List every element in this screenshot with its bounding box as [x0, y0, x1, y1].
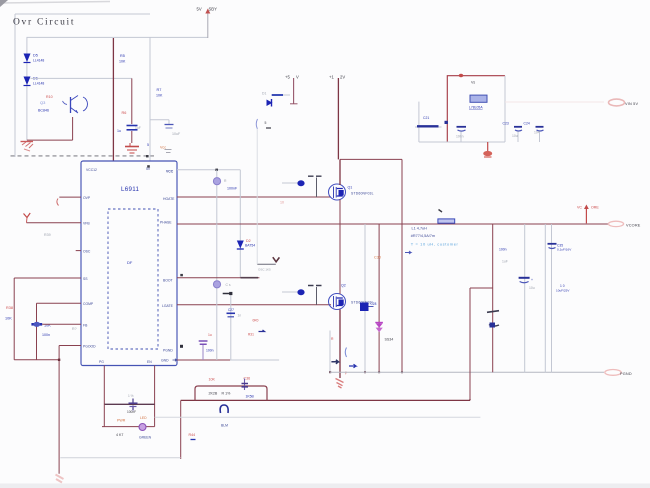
wire LED box bottom	[102, 404, 155, 426]
svg-text:R31: R31	[248, 333, 254, 337]
wire to VIN connector	[505, 101, 604, 103]
wire IC pin SS	[14, 277, 81, 279]
svg-text:C s: C s	[226, 283, 231, 287]
resistor R5 line	[112, 38, 114, 161]
junction dot	[215, 169, 218, 171]
wire faint y458	[60, 457, 180, 459]
svg-text:D2: D2	[246, 239, 251, 243]
small mark	[405, 251, 411, 254]
svg-text:GND: GND	[161, 359, 169, 363]
svg-text:C21: C21	[423, 116, 429, 120]
wire LGATE	[177, 304, 331, 306]
svg-text:D5: D5	[33, 54, 38, 58]
capacitor C31	[199, 333, 214, 360]
wire BOOT pin	[177, 277, 259, 279]
wire IC pin PGOOD	[59, 345, 81, 347]
svg-text:Vs: Vs	[471, 81, 475, 85]
svg-text:100nF: 100nF	[227, 187, 238, 191]
svg-text:PGND: PGND	[163, 349, 173, 353]
svg-text:R 1%: R 1%	[222, 392, 232, 396]
wire D2 branch	[239, 170, 241, 278]
svg-text:5: 5	[265, 121, 267, 125]
svg-text:4 K7: 4 K7	[116, 433, 123, 437]
svg-text:SS34: SS34	[385, 338, 394, 342]
svg-text:C28: C28	[371, 302, 377, 306]
svg-text:10K: 10K	[119, 60, 126, 64]
mosfet Q2	[329, 284, 374, 310]
cap legs	[461, 132, 540, 143]
svg-text:PHASE: PHASE	[160, 221, 172, 225]
junction dot	[445, 121, 448, 124]
capacitor C32	[127, 394, 138, 414]
resistor R40	[31, 322, 51, 337]
svg-text:HGATE: HGATE	[163, 197, 175, 201]
wire branch y78	[31, 77, 132, 79]
svg-text:10K: 10K	[5, 317, 12, 321]
capacitor C33 x492	[492, 224, 494, 372]
capacitor C24	[524, 122, 544, 135]
ground bottom left	[56, 475, 64, 483]
svg-text:104: 104	[534, 131, 540, 135]
svg-text:+5: +5	[285, 75, 290, 80]
svg-text:1K5B: 1K5B	[246, 395, 255, 399]
capacitor C36	[242, 379, 255, 399]
svg-text:1u: 1u	[117, 129, 121, 133]
wire TP drop	[216, 170, 218, 224]
ground block	[483, 142, 492, 157]
svg-text:10uF/25V: 10uF/25V	[556, 289, 570, 293]
svg-text:LL4148: LL4148	[33, 82, 44, 86]
svg-text:VC: VC	[577, 206, 582, 210]
diode D6	[24, 77, 45, 86]
junction dot red	[459, 74, 464, 78]
wire Q2 drain	[339, 224, 341, 294]
connector VIN	[609, 99, 639, 106]
svg-text:10K: 10K	[209, 378, 216, 382]
wire OVP bottom	[27, 117, 73, 140]
pin dot BOOT	[180, 274, 183, 276]
capacitor C5	[117, 126, 141, 134]
diode D2	[237, 239, 255, 249]
wire Q2 source	[339, 310, 341, 379]
svg-text:DF: DF	[127, 260, 133, 265]
label R7	[156, 88, 163, 98]
svg-text:C23: C23	[503, 122, 509, 126]
svg-text:OVP: OVP	[83, 196, 91, 200]
svg-text:+1: +1	[329, 75, 334, 80]
wire diode string	[26, 37, 28, 140]
pin dots IC top	[146, 155, 149, 157]
wire LED box top	[104, 403, 154, 405]
svg-text:10u: 10u	[529, 286, 535, 290]
wire top rail to caps	[340, 158, 402, 160]
svg-text:BOOT: BOOT	[163, 279, 173, 283]
power flag +12V	[329, 75, 345, 160]
power flag +5V_SBY	[197, 7, 218, 39]
svg-text:100n: 100n	[456, 135, 464, 139]
transistor Q4 cluster	[331, 337, 356, 375]
svg-text:PWR: PWR	[117, 419, 126, 423]
pin dot	[180, 345, 183, 348]
svg-text:PGOOD: PGOOD	[83, 345, 96, 349]
junction dot Q1 boot	[297, 180, 304, 186]
capacitor boot Q1	[308, 176, 322, 197]
svg-text:2V: 2V	[340, 75, 345, 80]
svg-text:PGND: PGND	[620, 372, 632, 376]
capacitor C27	[227, 308, 242, 318]
svg-text:R44: R44	[189, 433, 196, 437]
connector VOUT	[608, 221, 640, 227]
svg-text:2K2B: 2K2B	[209, 392, 218, 396]
wire IC pin FB	[42, 323, 81, 325]
svg-text:R10: R10	[46, 95, 53, 99]
svg-text:5V: 5V	[146, 167, 151, 171]
svg-text:VCORE: VCORE	[626, 223, 641, 227]
svg-text:C30: C30	[374, 256, 381, 260]
svg-text:ORE: ORE	[591, 206, 599, 210]
svg-text:5V: 5V	[197, 7, 202, 12]
ground small C7	[165, 150, 172, 153]
capacitor C28 x365	[364, 224, 366, 372]
svg-text:FB: FB	[83, 324, 88, 328]
wire IC pin VFB	[27, 222, 82, 224]
wire right drop	[504, 76, 506, 142]
wire left leg	[418, 102, 420, 142]
svg-text:100n: 100n	[499, 248, 507, 252]
wire GND pin	[177, 359, 230, 361]
wire Q1 source / phase	[339, 200, 341, 225]
resistor R6 line	[131, 78, 133, 143]
ferrite bead L2	[220, 405, 228, 428]
wire IC bottom pin EN	[154, 366, 156, 427]
svg-text:SS: SS	[83, 277, 88, 281]
capacitor C21	[417, 116, 439, 126]
diode D1	[256, 92, 290, 130]
svg-text:R5: R5	[120, 54, 125, 58]
label 10uF	[556, 284, 570, 293]
junction	[58, 359, 60, 361]
diode D5	[24, 54, 45, 63]
capacitor C23	[503, 122, 523, 139]
phase rail	[177, 223, 608, 225]
pin label tick	[241, 277, 259, 279]
svg-text:1 %: 1 %	[128, 394, 134, 398]
junction tick	[223, 292, 233, 295]
OVP block frame	[11, 14, 155, 157]
svg-text:SBY: SBY	[209, 7, 218, 12]
inductor L1	[438, 210, 455, 224]
LED D4	[116, 416, 152, 440]
svg-text:1uF: 1uF	[135, 126, 141, 130]
wire x230	[230, 294, 232, 361]
svg-text:L6911: L6911	[121, 186, 140, 193]
wire IC pin COMP	[37, 303, 82, 360]
net stub hook	[57, 199, 59, 206]
svg-text:Q3: Q3	[40, 100, 46, 105]
wire sense drop x330	[329, 331, 331, 373]
testpoint TP1	[213, 178, 238, 191]
wire join y360	[14, 359, 59, 361]
capacitor C35 x551	[551, 224, 553, 372]
svg-text:Vcc: Vcc	[160, 146, 166, 150]
wire HGATE	[177, 196, 331, 198]
wire faint y417	[155, 416, 481, 418]
svg-text:GREEN: GREEN	[139, 436, 152, 440]
capacitor leg x402	[401, 159, 403, 372]
svg-text:+: +	[531, 278, 533, 282]
junction dot Q2 boot	[297, 289, 304, 295]
wire 5V rail	[447, 76, 505, 142]
svg-text:LL4148: LL4148	[33, 59, 44, 63]
IC pin names left	[83, 196, 96, 349]
svg-text:T = 10 uH, customer: T = 10 uH, customer	[411, 241, 459, 246]
capacitor C22	[456, 127, 466, 139]
svg-text:LGATE: LGATE	[162, 304, 174, 308]
wire IC pin OVPin	[59, 196, 81, 198]
svg-text:VFB: VFB	[83, 222, 90, 226]
wire stub down x181	[180, 400, 182, 459]
svg-text:10K: 10K	[156, 94, 163, 98]
svg-text:0R0: 0R0	[253, 319, 259, 323]
svg-text:BLM: BLM	[221, 424, 228, 428]
svg-text:0,1uF/16V: 0,1uF/16V	[557, 248, 572, 252]
capacitor C30 x379	[378, 224, 380, 372]
wire Q1 drain	[339, 159, 341, 185]
svg-text:R38: R38	[6, 306, 13, 310]
svg-text:C27: C27	[228, 308, 234, 312]
testpoint TP2	[213, 281, 230, 288]
bootstrap wire Q2	[282, 291, 298, 293]
IC pin names top/bottom	[86, 167, 152, 364]
IC pin names right	[160, 170, 177, 363]
wire block bottom	[419, 141, 505, 143]
IC U1 L6911	[81, 161, 177, 366]
wire left rail down	[13, 278, 15, 360]
svg-text:L78L05A: L78L05A	[469, 106, 483, 110]
svg-text:1 0: 1 0	[560, 284, 565, 288]
ground OVP right	[125, 143, 139, 153]
wire sense x216	[216, 224, 218, 360]
label R44	[189, 433, 196, 440]
resistor network R42 box	[195, 377, 267, 401]
svg-text:10: 10	[280, 201, 284, 205]
svg-text:VCC: VCC	[166, 170, 174, 174]
svg-text:COMP: COMP	[83, 302, 94, 306]
wire IC bottom pin PG	[103, 366, 105, 405]
wire feedback x470	[470, 288, 493, 399]
capacitor C7	[165, 125, 181, 137]
svg-text:Q1: Q1	[348, 186, 353, 190]
svg-text:100n: 100n	[206, 349, 214, 353]
pin stub OSC	[76, 250, 81, 252]
svg-text:BAT54: BAT54	[245, 244, 255, 248]
ground Q2 source	[336, 379, 344, 389]
mosfet Q1	[329, 184, 374, 200]
wire branch to C7	[150, 120, 169, 124]
svg-text:R6: R6	[122, 111, 127, 115]
wire 5V branch x257	[256, 129, 258, 265]
wire 5VSBY horizontal	[27, 36, 208, 38]
diode D3 SS34	[375, 323, 393, 342]
svg-text:STD60NF03L: STD60NF03L	[351, 192, 374, 196]
power flag +5V	[285, 75, 299, 105]
svg-text:V: V	[296, 75, 299, 80]
svg-text:10u: 10u	[512, 134, 518, 138]
connector PGND	[605, 370, 632, 377]
wire pgood down	[58, 346, 60, 474]
svg-text:LED: LED	[140, 416, 147, 420]
svg-text:D1: D1	[262, 92, 266, 96]
net flag arrow left	[24, 213, 31, 223]
label R5	[119, 54, 126, 64]
svg-text:1u: 1u	[208, 333, 212, 337]
label cluster R31	[248, 319, 265, 337]
capacitor leg x545	[544, 224, 546, 372]
net labels above IC	[147, 143, 166, 150]
svg-text:OSC: OSC	[83, 250, 91, 254]
wire vcc line x150	[149, 37, 151, 161]
svg-text:C24: C24	[524, 122, 530, 126]
capacitor C34 x524	[524, 224, 526, 372]
svg-text:1n: 1n	[238, 314, 242, 318]
svg-text:VIN 5V: VIN 5V	[625, 102, 638, 106]
svg-text:Q2: Q2	[341, 284, 346, 288]
svg-text:Ovr Circuit: Ovr Circuit	[13, 18, 75, 28]
svg-text:R39: R39	[44, 233, 51, 237]
bootstrap wire Q1	[282, 182, 298, 184]
svg-text:R?: R?	[72, 327, 77, 331]
capacitor boot Q2	[308, 286, 322, 305]
transistor Q3	[38, 95, 87, 113]
wire cap row	[415, 126, 442, 128]
svg-text:R7: R7	[157, 88, 162, 92]
svg-text:BC846: BC846	[38, 109, 49, 113]
svg-text:VCC12: VCC12	[86, 168, 97, 172]
svg-text:OSC 1K5: OSC 1K5	[258, 268, 271, 272]
ground OVP left	[21, 142, 34, 152]
regulator U2	[469, 95, 487, 109]
svg-text:100n: 100n	[42, 333, 50, 337]
svg-text:100nF: 100nF	[127, 410, 136, 414]
svg-text:#R77/4,5A/7m: #R77/4,5A/7m	[411, 234, 435, 238]
svg-text:1uF: 1uF	[502, 260, 508, 264]
power flag VCORE	[577, 205, 599, 224]
net arrow OCSET	[257, 257, 279, 271]
long wire y400	[181, 399, 470, 400]
svg-text:EN: EN	[147, 360, 152, 364]
svg-text:PG: PG	[99, 360, 104, 364]
pgnd rail	[330, 371, 604, 373]
pgnd junction dots	[329, 371, 403, 373]
wire VCC right of IC	[177, 169, 240, 171]
svg-text:10uF: 10uF	[172, 132, 181, 136]
svg-text:L1 4,7uH: L1 4,7uH	[412, 227, 428, 231]
svg-text:5: 5	[147, 143, 149, 147]
